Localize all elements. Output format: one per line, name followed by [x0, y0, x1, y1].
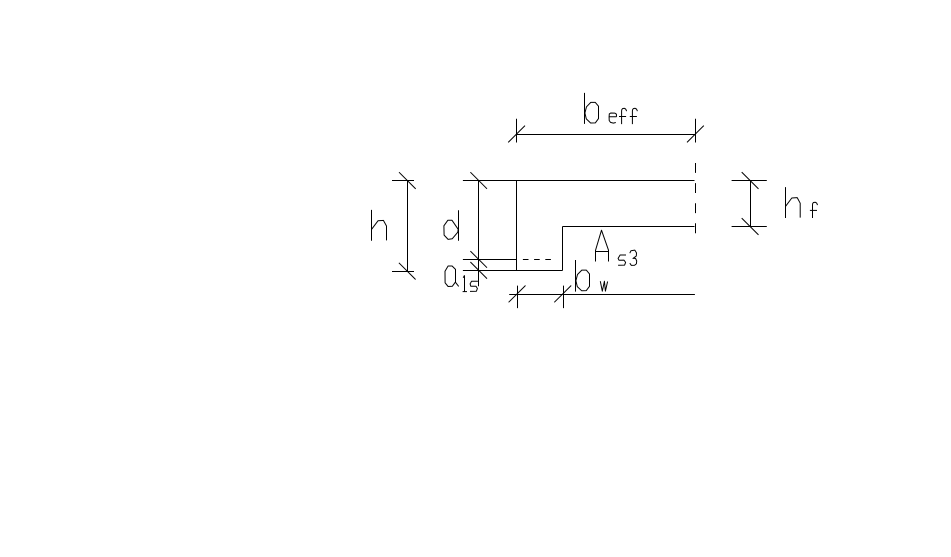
- node top-edge: flange top line with d-extension: [463, 180, 695, 182]
- dimension h_f bottom bar: [732, 226, 767, 228]
- dimension b_eff tick right: [687, 126, 704, 143]
- dimension b_w extension left: [517, 286, 519, 309]
- dimension b_w extension right: [563, 286, 565, 309]
- dimension b_eff extension right: [695, 119, 697, 143]
- dimension b_eff tick left: [508, 126, 525, 143]
- wire flange bottom edge: [563, 226, 695, 228]
- dimension b_w line: [509, 294, 695, 296]
- dimension d tick bottom / a1s tick top: [470, 251, 487, 268]
- dimension h_f top bar: [732, 180, 767, 182]
- dimension b_w tick right: [554, 286, 571, 303]
- label b of b_eff: [585, 93, 599, 124]
- dimension h tick top: [399, 172, 416, 189]
- dimension h tick bottom: [399, 263, 416, 280]
- label f subscript of h_f: [810, 202, 818, 218]
- wire rebar level extension line: [463, 259, 517, 261]
- dimension h_f line: [750, 181, 752, 227]
- label h of h_f: [786, 187, 801, 218]
- dimension d and a1s line: [478, 181, 480, 287]
- dimension d tick top: [470, 172, 487, 189]
- dimension h_f tick top: [742, 172, 759, 189]
- node A-s3 rebar level dashed line: [523, 259, 551, 261]
- dimension h_f tick bottom: [742, 218, 759, 235]
- label b of b_w: [576, 260, 590, 292]
- dimension h bottom bar: [392, 271, 414, 273]
- label A of A_s3: [596, 230, 609, 261]
- wire web right edge: [562, 227, 564, 271]
- label h (overall depth): [372, 210, 387, 241]
- wire symmetry cut dashed line: [695, 163, 697, 234]
- dimension a1s tick bottom: [470, 262, 487, 279]
- label s3 subscript of A_s3: [618, 250, 637, 265]
- label 1s subscript of a_1s: [463, 275, 478, 291]
- label eff subscript of b_eff: [609, 108, 637, 124]
- dimension b_w tick left: [509, 286, 526, 303]
- wire section bottom edge with a1s extension: [463, 270, 563, 272]
- label d (effective depth): [444, 210, 459, 240]
- label w subscript of b_w: [600, 281, 607, 291]
- dimension h line: [407, 181, 409, 272]
- dimension b_eff extension left: [516, 119, 518, 143]
- wire section left edge: [516, 181, 518, 271]
- label a of a_1s: [445, 266, 459, 287]
- dimension b_eff line: [517, 134, 696, 136]
- dimension h top bar: [392, 180, 414, 182]
